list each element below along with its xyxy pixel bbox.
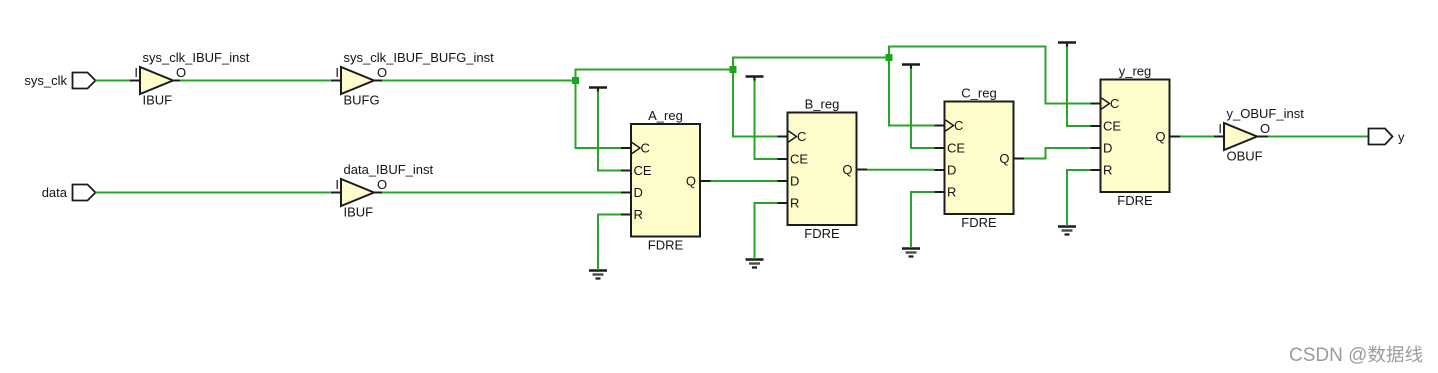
svg-text:Q: Q — [1155, 129, 1165, 144]
wire sys_clk_IBUF output to BUFG input — [180, 80, 330, 82]
wire VCC to y_reg CE — [1067, 47, 1091, 127]
svg-text:OBUF: OBUF — [1227, 149, 1263, 164]
svg-text:A_reg: A_reg — [648, 108, 683, 123]
input port sys_clk — [24, 73, 95, 89]
svg-text:FDRE: FDRE — [648, 238, 684, 253]
wire A_reg Q to B_reg D — [711, 180, 778, 182]
svg-text:D: D — [790, 174, 799, 189]
wire clk net J2 down to B_reg C — [733, 70, 778, 137]
svg-text:y_reg: y_reg — [1119, 64, 1152, 79]
junction J2 on clk net — [730, 66, 737, 73]
wire clk net J1 up to rail1 toward J2 — [576, 70, 734, 81]
buffer data_IBUF_inst (IBUF) — [331, 179, 383, 206]
svg-text:sys_clk: sys_clk — [24, 73, 67, 88]
wire sys_clk port to IBUF input — [96, 80, 131, 82]
power VCC symbol VCC for y_reg CE — [1058, 43, 1076, 48]
svg-text:Q: Q — [999, 151, 1009, 166]
svg-text:C: C — [1110, 96, 1119, 111]
wire clk net J3 up rail3 to y_reg C — [889, 47, 1091, 104]
wire B_reg R to ground — [755, 203, 778, 259]
wire C_reg R to ground — [911, 192, 935, 248]
junction J1 on clk net — [572, 77, 579, 84]
wire y_reg Q to OBUF input — [1180, 136, 1214, 138]
wire VCC to B_reg CE — [755, 81, 778, 160]
svg-text:D: D — [634, 185, 643, 200]
svg-text:O: O — [377, 65, 387, 80]
svg-text:IBUF: IBUF — [143, 93, 173, 108]
svg-text:B_reg: B_reg — [805, 97, 840, 112]
svg-text:O: O — [176, 65, 186, 80]
flip-flop A_reg (FDRE) — [621, 124, 711, 237]
svg-text:R: R — [1103, 163, 1112, 178]
wire VCC to C_reg CE — [911, 69, 935, 149]
wire VCC to A_reg CE — [598, 92, 621, 171]
svg-text:FDRE: FDRE — [1117, 193, 1153, 208]
wire OBUF output to y port — [1268, 136, 1369, 138]
svg-text:R: R — [790, 196, 799, 211]
svg-text:IBUF: IBUF — [344, 205, 374, 220]
svg-text:I: I — [134, 65, 138, 80]
svg-text:C_reg: C_reg — [961, 86, 996, 101]
svg-text:I: I — [1218, 121, 1222, 136]
buffer sys_clk_IBUF_BUFG_inst (BUFG) — [331, 67, 383, 94]
flip-flop C_reg (FDRE) — [935, 102, 1025, 215]
svg-text:C: C — [797, 129, 806, 144]
svg-text:R: R — [947, 185, 956, 200]
svg-text:Q: Q — [686, 174, 696, 189]
svg-text:sys_clk_IBUF_BUFG_inst: sys_clk_IBUF_BUFG_inst — [344, 50, 495, 65]
wire clk net J3 down to C_reg C — [889, 58, 935, 126]
junction J3 on clk net — [886, 54, 893, 61]
svg-text:O: O — [1260, 121, 1270, 136]
svg-text:FDRE: FDRE — [961, 215, 997, 230]
svg-text:CE: CE — [947, 141, 965, 156]
wire C_reg Q to y_reg D — [1024, 148, 1091, 159]
output port y — [1369, 129, 1406, 145]
wire data_IBUF output to A_reg D — [382, 192, 621, 194]
ground symbol GND for A_reg R — [589, 271, 607, 279]
svg-text:D: D — [947, 163, 956, 178]
power VCC symbol VCC for B_reg CE — [746, 77, 764, 82]
svg-text:y: y — [1398, 130, 1405, 145]
svg-text:CSDN @: CSDN @ — [1289, 345, 1367, 366]
svg-text:CE: CE — [1103, 119, 1121, 134]
wire B_reg Q to C_reg D — [867, 169, 935, 171]
wire clk net J2 up to rail2 toward J3 — [733, 58, 889, 70]
svg-text:C: C — [954, 118, 963, 133]
svg-text:O: O — [377, 177, 387, 192]
ground symbol GND for C_reg R — [902, 249, 920, 257]
input port data — [42, 185, 96, 201]
svg-text:FDRE: FDRE — [804, 226, 840, 241]
svg-text:sys_clk_IBUF_inst: sys_clk_IBUF_inst — [143, 50, 250, 65]
buffer sys_clk_IBUF_inst (IBUF) — [130, 67, 181, 94]
wire A_reg R to ground — [598, 215, 621, 271]
flip-flop B_reg (FDRE) — [778, 113, 868, 226]
wire y_reg R to ground — [1067, 170, 1091, 226]
svg-text:D: D — [1103, 141, 1112, 156]
svg-text:BUFG: BUFG — [344, 93, 380, 108]
wire data port to data_IBUF input — [96, 192, 331, 194]
svg-text:C: C — [641, 141, 650, 156]
svg-text:y_OBUF_inst: y_OBUF_inst — [1227, 106, 1305, 121]
svg-text:CE: CE — [634, 163, 652, 178]
wire BUFG output to junction J1 (clk net) — [382, 80, 576, 82]
watermark CSDN @数据线 — [1289, 345, 1422, 366]
power VCC symbol VCC for C_reg CE — [902, 65, 920, 70]
flip-flop y_reg (FDRE) — [1091, 80, 1181, 193]
wire clk net J1 down to A_reg C — [576, 81, 622, 149]
svg-text:I: I — [335, 177, 339, 192]
svg-text:data: data — [42, 185, 68, 200]
svg-text:data_IBUF_inst: data_IBUF_inst — [344, 162, 434, 177]
svg-text:R: R — [634, 207, 643, 222]
power VCC symbol VCC for A_reg CE — [589, 88, 607, 93]
svg-text:Q: Q — [842, 162, 852, 177]
ground symbol GND for y_reg R — [1058, 227, 1076, 235]
svg-text:I: I — [335, 65, 339, 80]
buffer y_OBUF_inst (OBUF) — [1214, 123, 1269, 150]
svg-text:CE: CE — [790, 152, 808, 167]
ground symbol GND for B_reg R — [746, 260, 764, 268]
